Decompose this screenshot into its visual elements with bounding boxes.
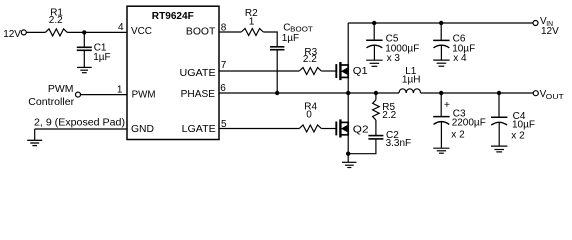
label PWM Controller	[28, 84, 74, 108]
junction node VIN/C5	[372, 21, 376, 25]
junction node VCC/C1	[82, 30, 86, 34]
label VOUT	[540, 89, 565, 101]
node PWM controller input terminal	[76, 92, 81, 97]
wire Q1 drain to VIN rail	[347, 23, 349, 65]
svg-text:PHASE: PHASE	[181, 89, 216, 100]
wire UGATE pin 7 to R3	[219, 70, 299, 72]
svg-text:1µF: 1µF	[282, 33, 299, 44]
svg-text:x 2: x 2	[511, 131, 525, 142]
transistor Q2	[336, 119, 348, 137]
junction node Q2 source / C2	[346, 152, 350, 156]
label CBOOT	[283, 22, 313, 33]
capacitor C3	[433, 93, 449, 148]
capacitor C5	[366, 23, 382, 60]
wire GND pin to ground	[35, 128, 127, 130]
wire Q2 drain to phase node	[347, 93, 349, 122]
resistor R5	[373, 93, 380, 120]
wire L1 to VOUT	[421, 92, 534, 94]
svg-text:RT9624F: RT9624F	[152, 11, 194, 22]
junction node VOUT/C3	[439, 91, 443, 95]
inductor L1	[399, 89, 421, 93]
ground (GND pin)	[27, 129, 42, 146]
svg-text:OUT: OUT	[546, 92, 564, 101]
ground (Q2/C2)	[342, 162, 357, 167]
wire PHASE pin 6 to L1	[219, 92, 399, 94]
svg-text:Controller: Controller	[28, 97, 74, 108]
svg-text:2.2: 2.2	[303, 54, 317, 65]
svg-text:1µF: 1µF	[93, 52, 110, 63]
ground (C6)	[433, 60, 449, 66]
svg-text:UGATE: UGATE	[180, 68, 216, 79]
junction node CBOOT/PHASE	[275, 91, 279, 95]
transistor Q1	[336, 62, 348, 80]
wire VIN rail	[348, 22, 533, 24]
svg-text:LGATE: LGATE	[182, 124, 216, 135]
svg-text:2200µF: 2200µF	[452, 117, 486, 128]
ground (C3)	[433, 148, 449, 153]
svg-text:x 4: x 4	[453, 53, 467, 64]
label VIN	[540, 16, 559, 37]
svg-text:1: 1	[249, 17, 255, 28]
capacitor CBOOT	[270, 47, 284, 93]
svg-text:12V: 12V	[3, 29, 21, 40]
wire PWM terminal to pin 1	[81, 94, 128, 96]
svg-text:2, 9 (Exposed Pad): 2, 9 (Exposed Pad)	[34, 117, 125, 128]
svg-text:0: 0	[306, 109, 312, 120]
svg-text:Q2: Q2	[353, 125, 369, 136]
IC U1 RT9624F	[127, 6, 219, 139]
capacitor C1	[77, 32, 92, 67]
resistor R1	[45, 29, 67, 36]
svg-text:6: 6	[220, 83, 226, 94]
resistor R3	[299, 68, 321, 75]
wire R2 to CBOOT	[263, 32, 277, 47]
svg-text:BOOT: BOOT	[186, 26, 216, 37]
svg-text:10µF: 10µF	[512, 120, 535, 131]
wire Q2 source to ground	[347, 135, 349, 163]
ground (C1)	[77, 67, 92, 72]
svg-text:3.3nF: 3.3nF	[386, 138, 412, 149]
svg-text:2.2: 2.2	[382, 110, 396, 121]
svg-text:1: 1	[117, 85, 123, 96]
svg-text:PWM: PWM	[48, 84, 74, 95]
svg-text:2.2: 2.2	[49, 15, 63, 26]
svg-text:x 2: x 2	[451, 129, 465, 140]
node VOUT terminal	[533, 91, 538, 96]
svg-text:VCC: VCC	[131, 26, 152, 37]
wire R1 to VCC pin 4	[67, 31, 127, 33]
svg-text:Q1: Q1	[353, 66, 368, 77]
junction node VIN/C6	[439, 21, 443, 25]
capacitor C2	[348, 136, 383, 154]
wire Q1 source to phase node	[347, 77, 349, 93]
wire LGATE pin 5 to R4	[219, 128, 299, 130]
wire 12V terminal to R1	[26, 31, 45, 33]
wire BOOT pin 8 to R2	[219, 31, 241, 33]
junction node VOUT/C4	[497, 91, 501, 95]
ground (C5)	[366, 60, 382, 66]
svg-text:7: 7	[221, 60, 227, 71]
wire R5 to C2	[375, 120, 377, 136]
node VIN terminal	[533, 21, 538, 26]
svg-text:1µH: 1µH	[402, 75, 421, 86]
capacitor C6	[433, 23, 449, 60]
svg-text:+: +	[444, 100, 450, 111]
resistor R2	[241, 29, 263, 36]
resistor R4	[299, 125, 321, 132]
wire R4 to Q2 gate	[321, 128, 336, 130]
capacitor C4	[491, 93, 507, 146]
wire R3 to Q1 gate	[321, 70, 336, 72]
svg-text:12V: 12V	[541, 26, 559, 37]
junction node phase/R5	[374, 91, 378, 95]
svg-text:PWM: PWM	[132, 90, 156, 101]
ground (C4)	[491, 146, 507, 152]
svg-text:GND: GND	[131, 124, 154, 135]
svg-text:x 3: x 3	[387, 53, 401, 64]
node 12V input terminal	[21, 30, 26, 35]
svg-text:4: 4	[118, 22, 124, 33]
junction node phase/Q1/Q2	[346, 91, 350, 95]
